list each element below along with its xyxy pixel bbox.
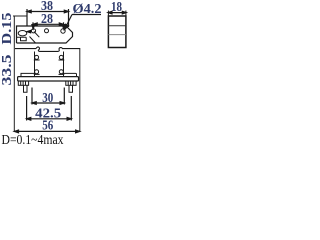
terminal pin left xyxy=(24,85,28,92)
base plate xyxy=(18,77,79,81)
rivet bottom-right xyxy=(59,70,65,75)
body edge left xyxy=(34,52,36,77)
side view ext ticks xyxy=(107,11,109,17)
dim line 56 xyxy=(14,130,80,133)
svg-text:33.5: 33.5 xyxy=(0,55,15,86)
top view plate outline xyxy=(17,26,73,43)
rivet top-left xyxy=(34,55,40,60)
body edge right xyxy=(63,52,65,77)
terminal block right xyxy=(66,81,76,85)
slot ellipse xyxy=(18,31,27,36)
side view dim line 18 xyxy=(108,11,126,14)
dim line 28 xyxy=(32,22,65,30)
mount hole middle xyxy=(45,29,49,33)
plate diagonal 2 xyxy=(30,37,36,44)
dim line 38 xyxy=(27,9,69,27)
side view body xyxy=(108,16,126,48)
rivet top-right xyxy=(59,55,65,60)
terminal pin right xyxy=(69,85,73,92)
tab under slot xyxy=(17,37,27,41)
left extension line column xyxy=(13,16,15,132)
mount hole left xyxy=(31,29,35,33)
svg-text:D=0.1~4max: D=0.1~4max xyxy=(2,133,64,145)
ext line left upper xyxy=(13,15,27,17)
dim line 42.5 xyxy=(27,96,72,121)
rivet bottom-left xyxy=(34,70,40,75)
mount hole right xyxy=(61,29,65,33)
dim line 30 xyxy=(32,88,64,105)
side view inner line 1 xyxy=(108,25,126,27)
slot arrow bar xyxy=(27,30,32,33)
svg-text:30: 30 xyxy=(42,91,53,106)
svg-text:D.15: D.15 xyxy=(0,13,15,45)
right extension line column xyxy=(79,49,81,132)
plate diagonal 1 xyxy=(34,32,39,38)
right bracket step xyxy=(64,73,77,76)
front view flange line with curls xyxy=(15,47,80,51)
terminal block left xyxy=(18,81,28,85)
side view inner line 2 xyxy=(108,34,126,36)
left bracket step xyxy=(21,73,35,76)
